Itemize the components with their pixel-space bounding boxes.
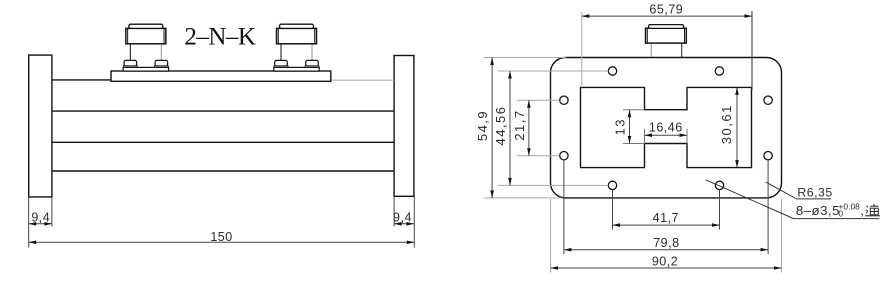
svg-text:0: 0 xyxy=(838,208,843,218)
svg-text:90,2: 90,2 xyxy=(652,255,678,269)
svg-text:21,7: 21,7 xyxy=(512,109,527,140)
svg-text:44,56: 44,56 xyxy=(493,105,508,145)
svg-text:9,4: 9,4 xyxy=(31,210,50,224)
svg-text:16,46: 16,46 xyxy=(649,121,683,135)
svg-text:9,4: 9,4 xyxy=(393,210,412,224)
svg-text:79,8: 79,8 xyxy=(653,236,679,250)
svg-text:54,9: 54,9 xyxy=(475,110,490,141)
svg-text:8–ø3,5: 8–ø3,5 xyxy=(796,203,840,218)
svg-text:41,7: 41,7 xyxy=(653,211,679,225)
svg-text:30,61: 30,61 xyxy=(719,104,734,144)
svg-text:,: , xyxy=(860,203,864,218)
svg-text:150: 150 xyxy=(210,230,232,244)
svg-text:R6,35: R6,35 xyxy=(797,186,832,200)
svg-text:13: 13 xyxy=(613,118,628,135)
svg-text:2–N–K: 2–N–K xyxy=(184,24,256,51)
svg-text:65,79: 65,79 xyxy=(649,3,683,17)
